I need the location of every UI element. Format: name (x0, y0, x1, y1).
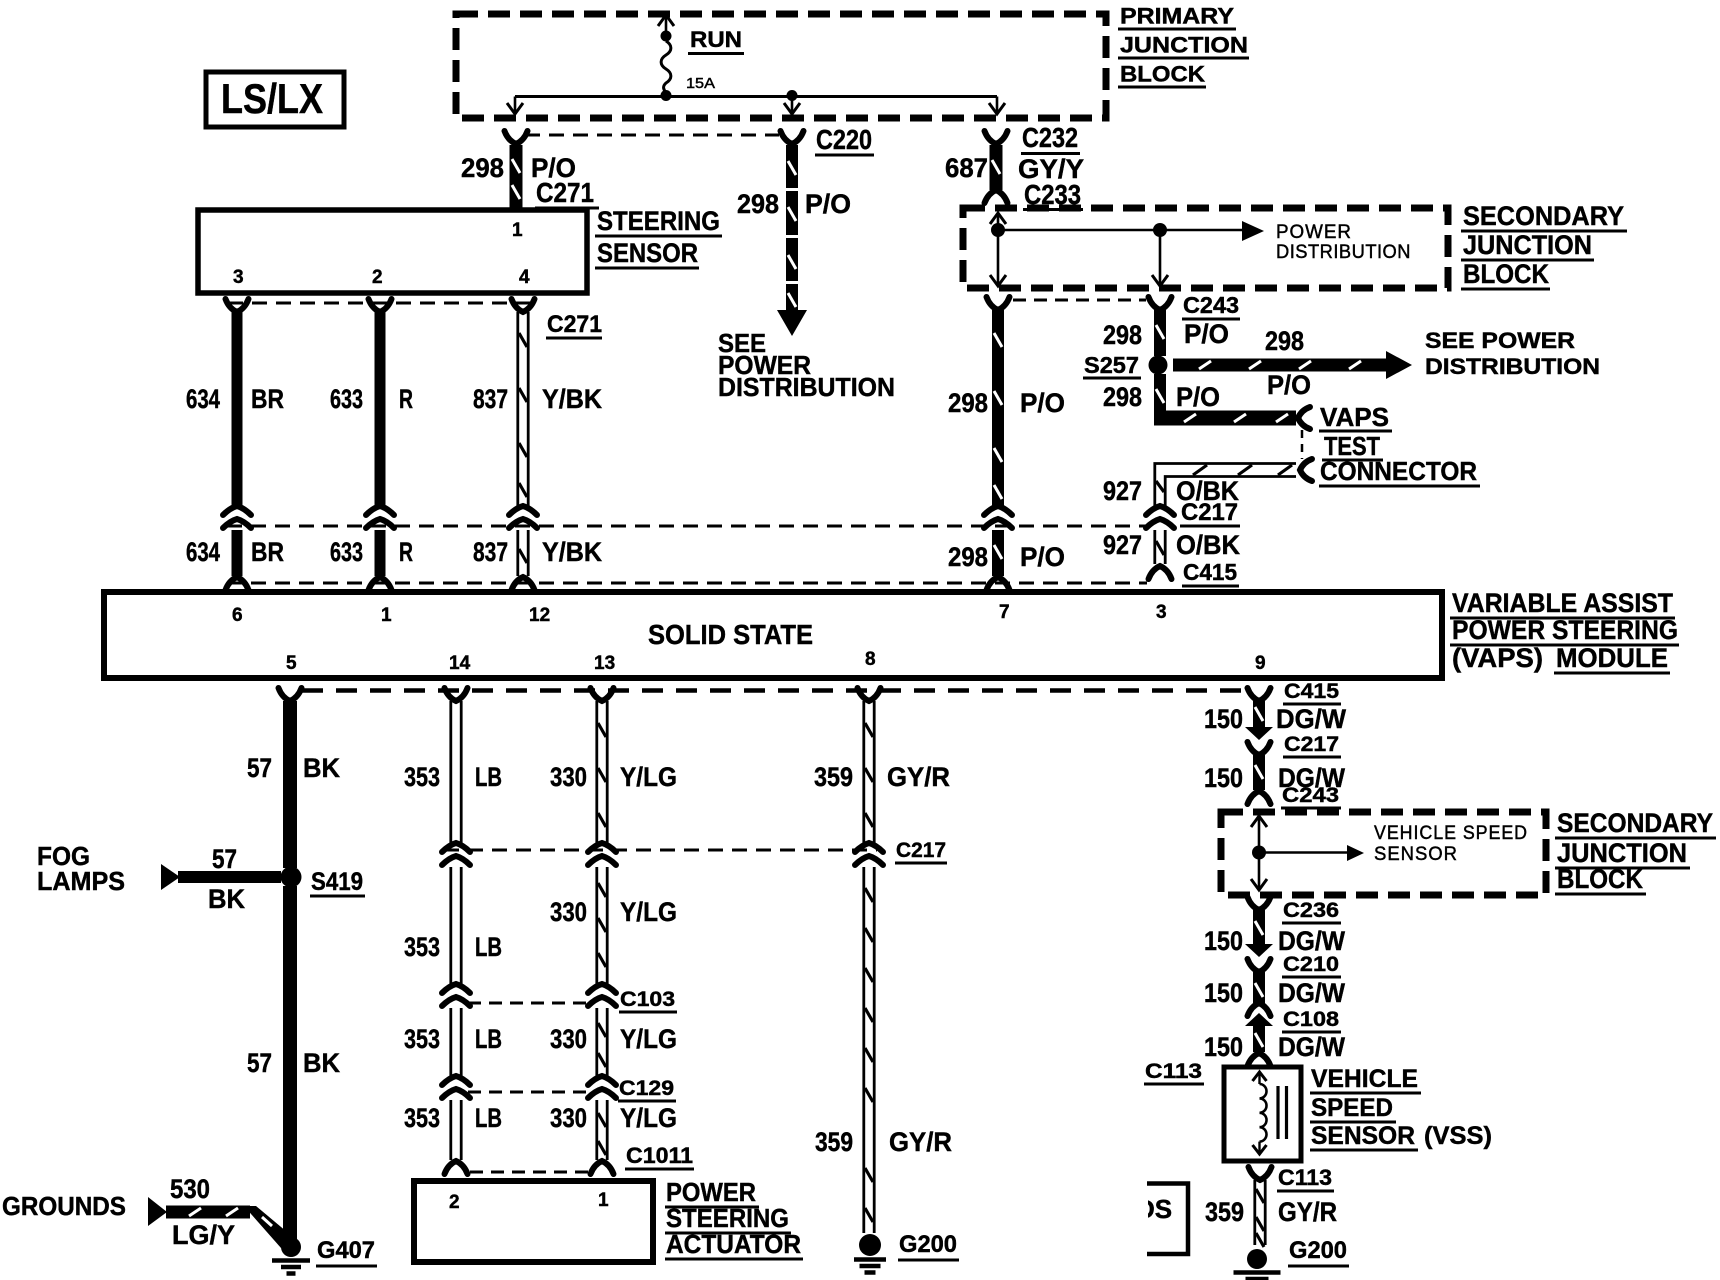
svg-text:Y/LG: Y/LG (620, 762, 677, 792)
svg-text:BLOCK: BLOCK (1120, 62, 1205, 87)
svg-text:633: 633 (330, 537, 363, 567)
svg-text:JUNCTION: JUNCTION (1463, 230, 1592, 260)
svg-text:Y/LG: Y/LG (620, 897, 677, 927)
svg-text:57: 57 (247, 753, 272, 783)
svg-text:P/O: P/O (805, 189, 851, 219)
wire 353 LB from pin 14 (445, 688, 468, 701)
svg-text:353: 353 (404, 932, 440, 962)
svg-text:SECONDARY: SECONDARY (1557, 808, 1713, 838)
svg-text:DG/W: DG/W (1278, 926, 1345, 956)
svg-text:837: 837 (473, 384, 508, 414)
svg-text:O/BK: O/BK (1176, 530, 1240, 560)
svg-text:330: 330 (550, 762, 587, 792)
svg-text:G200: G200 (899, 1231, 957, 1258)
module bottom connector mate line (302, 688, 1247, 693)
svg-text:5: 5 (286, 653, 297, 674)
node: RUN switch output (661, 31, 672, 42)
power steering actuator box (414, 1181, 653, 1262)
svg-text:POWER STEERING: POWER STEERING (1452, 615, 1678, 645)
svg-text:C271: C271 (536, 177, 594, 208)
svg-text:GY/R: GY/R (889, 1127, 952, 1157)
arrow to power distribution (777, 310, 807, 336)
svg-text:13: 13 (594, 653, 615, 674)
svg-text:4: 4 (519, 267, 530, 288)
inline connector at C217 (927 wire) (1146, 506, 1174, 515)
svg-text:SEE POWER: SEE POWER (1425, 328, 1575, 353)
secondary junction block (lower, dashed box) (1221, 812, 1546, 895)
arrow VEHICLE SPEED SENSOR (1347, 845, 1364, 861)
svg-text:C113: C113 (1278, 1165, 1332, 1190)
wire 298 P/O elbow to VAPS test connector (1154, 374, 1166, 418)
wire 687 GY/Y (990, 145, 1003, 190)
inline connector C108 (1248, 1003, 1271, 1016)
svg-text:BLOCK: BLOCK (1557, 864, 1643, 894)
svg-text:P/O: P/O (1184, 319, 1229, 349)
svg-text:C236: C236 (1283, 899, 1339, 922)
svg-text:JUNCTION: JUNCTION (1120, 33, 1248, 58)
svg-text:57: 57 (212, 844, 237, 874)
connector C1011 mate line (470, 1171, 594, 1174)
svg-text:57: 57 (247, 1048, 272, 1078)
svg-text:(VAPS): (VAPS) (1452, 643, 1543, 673)
svg-text:12: 12 (529, 605, 550, 626)
connector C103 mate line (468, 1002, 592, 1005)
junction block internal bus (990, 213, 1006, 224)
fuse 15A (wavy symbol) (661, 41, 671, 92)
svg-text:C103: C103 (620, 988, 675, 1011)
svg-text:353: 353 (404, 1024, 440, 1054)
svg-text:927: 927 (1103, 476, 1142, 506)
svg-text:1: 1 (598, 1190, 609, 1211)
svg-text:RUN: RUN (690, 27, 742, 52)
svg-text:LAMPS: LAMPS (37, 866, 125, 896)
svg-text:359: 359 (814, 762, 853, 792)
module pin flares (226, 577, 249, 590)
svg-text:353: 353 (404, 1103, 440, 1133)
svg-text:359: 359 (1205, 1197, 1244, 1227)
inline connector C210 (1245, 944, 1273, 957)
svg-text:634: 634 (186, 384, 220, 414)
VAPS module box (104, 592, 1442, 678)
svg-text:BK: BK (303, 753, 340, 783)
svg-text:SENSOR: SENSOR (597, 238, 698, 268)
svg-text:VAPS: VAPS (1320, 402, 1389, 432)
svg-text:P/O: P/O (1020, 542, 1065, 572)
svg-text:Y/LG: Y/LG (620, 1103, 677, 1133)
wire 837 Y/BK from pin 4 (512, 299, 535, 312)
svg-text:CONNECTOR: CONNECTOR (1320, 456, 1477, 486)
wire 298 to splice S257 (1154, 310, 1166, 356)
svg-text:6: 6 (232, 605, 243, 626)
svg-text:DG/W: DG/W (1278, 1032, 1345, 1062)
wire drop to C232 feed (996, 97, 999, 114)
wire 298 P/O to steering sensor (510, 145, 523, 212)
inline connector at C103 (353 wire) (442, 984, 470, 993)
svg-text:VEHICLE SPEED: VEHICLE SPEED (1374, 823, 1528, 844)
inline connector C217 (150 wire) (1245, 727, 1273, 740)
svg-text:359: 359 (815, 1127, 853, 1157)
svg-text:C232: C232 (1022, 122, 1078, 153)
svg-text:2: 2 (449, 1192, 460, 1213)
wire 298 P/O to module pin 7 (992, 310, 1004, 506)
svg-text:GY/R: GY/R (887, 762, 950, 792)
svg-text:C217: C217 (1284, 733, 1339, 756)
svg-text:DISTRIBUTION: DISTRIBUTION (718, 372, 895, 402)
svg-text:298: 298 (461, 153, 504, 183)
inline connector at C103 (330 wire) (588, 984, 616, 993)
svg-text:C220: C220 (816, 124, 872, 155)
svg-text:MODULE: MODULE (1556, 643, 1668, 673)
svg-text:353: 353 (404, 762, 440, 792)
ground G200 (left) (859, 1234, 881, 1256)
svg-text:DISTRIBUTION: DISTRIBUTION (1276, 242, 1411, 263)
svg-text:14: 14 (449, 653, 471, 674)
secondary junction block (upper, dashed box) (963, 208, 1448, 288)
wire 634 BR lower segment (232, 530, 243, 576)
wire 633 R from pin 2 (369, 299, 392, 312)
svg-text:634: 634 (186, 537, 220, 567)
svg-text:LB: LB (475, 1103, 502, 1133)
inline connector halves at C217: 634 wire (223, 506, 251, 515)
inline connector at C129 (330 wire) (588, 1076, 616, 1085)
wire 150 DG/W below junction block (1248, 897, 1271, 910)
svg-text:R: R (399, 384, 413, 414)
svg-text:298: 298 (1265, 326, 1304, 356)
connector C415 mate line (module connector) (227, 582, 1147, 585)
wire 57 BK to ground (283, 886, 297, 1240)
wire 330 Y/LG from pin 13 (591, 688, 614, 701)
VSS internal: sensor coil (1253, 1072, 1267, 1081)
connector C233 half (985, 190, 1008, 203)
svg-text:DG/W: DG/W (1276, 704, 1346, 734)
wire 633 R lower segment (375, 530, 386, 576)
svg-text:Y/BK: Y/BK (542, 537, 602, 567)
steering sensor box (198, 210, 587, 293)
svg-text:SENSOR: SENSOR (1374, 844, 1458, 865)
ground G407 (281, 1237, 301, 1257)
svg-text:3: 3 (1156, 602, 1167, 623)
adjacent circuit box fragment (DS) (1147, 1184, 1188, 1255)
svg-text:150: 150 (1204, 704, 1243, 734)
connector C217 mate line (center) (444, 849, 877, 852)
wire 837 Y/BK lower segment (516, 530, 519, 576)
connector C232 half (985, 131, 1008, 144)
svg-text:C1011: C1011 (626, 1143, 693, 1168)
node on bus (991, 223, 1005, 237)
svg-text:C271: C271 (547, 311, 602, 338)
svg-text:1: 1 (381, 605, 392, 626)
svg-text:SECONDARY: SECONDARY (1463, 201, 1624, 231)
svg-text:VARIABLE ASSIST: VARIABLE ASSIST (1452, 588, 1673, 618)
inline connector at C217 (359 wire) (855, 843, 883, 852)
node junction at C220 feed (787, 90, 798, 101)
svg-text:PRIMARY: PRIMARY (1120, 4, 1234, 29)
svg-text:C217: C217 (1181, 499, 1238, 526)
node: fuse output junction (661, 90, 672, 101)
connector C243 half (right) (1149, 297, 1172, 310)
LS/LX model label box (206, 72, 344, 127)
svg-text:G200: G200 (1289, 1237, 1347, 1264)
svg-text:15A: 15A (686, 75, 715, 92)
svg-text:150: 150 (1204, 926, 1243, 956)
svg-text:GY/R: GY/R (1278, 1197, 1337, 1227)
junction block internal bus (lower) (1251, 816, 1267, 827)
connector C129 mate line (468, 1091, 592, 1094)
arrow POWER DISTRIBUTION (1242, 221, 1264, 241)
svg-text:837: 837 (473, 537, 508, 567)
svg-text:150: 150 (1204, 978, 1243, 1008)
ground G200 (right) (1247, 1249, 1267, 1269)
svg-text:633: 633 (330, 384, 363, 414)
svg-text:BK: BK (303, 1048, 340, 1078)
inline connector at C217 (330 wire) (588, 843, 616, 852)
dashed link between test connector pins (1301, 430, 1304, 459)
svg-text:150: 150 (1204, 1032, 1243, 1062)
wire 359 GY/R from pin 8 (858, 688, 881, 701)
svg-text:530: 530 (170, 1174, 210, 1204)
svg-text:C113: C113 (1145, 1060, 1202, 1083)
wire 634 BR from pin 3 (226, 299, 249, 312)
wire 927 O/BK return from VAPS test connector (1300, 459, 1312, 481)
svg-text:330: 330 (550, 897, 587, 927)
wire drop to C271 feed (514, 97, 517, 114)
svg-text:SOLID STATE: SOLID STATE (648, 619, 813, 650)
svg-text:2: 2 (372, 267, 383, 288)
wire 150 DG/W chain from pin 9 (1248, 688, 1271, 701)
svg-text:C415: C415 (1183, 559, 1237, 585)
connector C243 half (left) (987, 297, 1010, 310)
svg-text:P/O: P/O (1020, 388, 1065, 418)
svg-text:SPEED: SPEED (1311, 1094, 1393, 1122)
svg-text:298: 298 (737, 189, 779, 219)
svg-text:BK: BK (208, 884, 245, 914)
svg-text:S257: S257 (1084, 352, 1139, 378)
svg-text:298: 298 (948, 542, 988, 572)
svg-text:LG/Y: LG/Y (172, 1220, 235, 1250)
svg-text:VEHICLE: VEHICLE (1311, 1065, 1418, 1093)
svg-text:P/O: P/O (1176, 382, 1220, 412)
inline connector at C129 (353 wire) (442, 1076, 470, 1085)
svg-text:C210: C210 (1283, 953, 1339, 976)
svg-text:9: 9 (1255, 653, 1266, 674)
svg-text:DISTRIBUTION: DISTRIBUTION (1425, 354, 1600, 379)
svg-text:LS/LX: LS/LX (221, 75, 323, 122)
connector C220 dashed mate line (525, 134, 779, 137)
svg-text:330: 330 (550, 1103, 587, 1133)
svg-text:LB: LB (475, 932, 502, 962)
wire drop to C220 feed (791, 97, 794, 114)
svg-text:C108: C108 (1283, 1008, 1339, 1031)
svg-text:298: 298 (1103, 320, 1142, 350)
svg-text:1: 1 (512, 220, 523, 241)
svg-text:150: 150 (1204, 763, 1243, 793)
svg-text:ACTUATOR: ACTUATOR (666, 1229, 801, 1259)
connector C243 mate line (1013, 299, 1146, 302)
inline connector halves at C217: 837 wire (509, 506, 537, 515)
svg-text:POWER: POWER (1276, 222, 1352, 243)
svg-text:C129: C129 (619, 1077, 674, 1100)
splice S419 (281, 867, 302, 888)
svg-text:927: 927 (1103, 530, 1142, 560)
svg-text:687: 687 (945, 153, 988, 183)
svg-text:7: 7 (999, 602, 1010, 623)
svg-text:LB: LB (475, 1024, 502, 1054)
svg-text:SENSOR: SENSOR (1311, 1122, 1415, 1150)
svg-text:G407: G407 (317, 1237, 375, 1264)
wire 359 GY/R to ground (1253, 1180, 1256, 1245)
ignition switch RUN feed arrow (658, 15, 674, 26)
svg-text:Y/BK: Y/BK (542, 384, 602, 414)
svg-text:C415: C415 (1284, 680, 1339, 703)
svg-text:C243: C243 (1183, 292, 1239, 318)
connector C271 top half (505, 131, 528, 144)
svg-text:BLOCK: BLOCK (1463, 259, 1549, 289)
wire 57 BK from pin 5 (279, 688, 302, 701)
svg-text:C243: C243 (1282, 784, 1339, 807)
node on bus (lower) (1252, 846, 1266, 860)
svg-text:LB: LB (475, 762, 502, 792)
svg-text:DG/W: DG/W (1278, 978, 1345, 1008)
vehicle speed sensor box (1224, 1067, 1301, 1161)
svg-text:BR: BR (251, 384, 284, 414)
connector C113 below VSS (1249, 1167, 1272, 1180)
primary junction block (dashed box) (456, 14, 1106, 118)
svg-text:R: R (399, 537, 413, 567)
connector C217 mate line (upper run) (227, 525, 1146, 528)
svg-text:GROUNDS: GROUNDS (2, 1191, 126, 1221)
svg-text:298: 298 (948, 388, 988, 418)
inline connector at C217 (298 wire) (984, 506, 1012, 515)
inline connector halves at C217: 633 wire (366, 506, 394, 515)
inline connector at C217 (353 wire) (442, 843, 470, 852)
node to C243 drop (1153, 223, 1167, 237)
svg-text:298: 298 (1103, 382, 1142, 412)
svg-text:C217: C217 (896, 839, 946, 862)
svg-text:P/O: P/O (1267, 370, 1311, 400)
wire: fuse bus inside primary junction block (515, 95, 997, 98)
svg-text:STEERING: STEERING (597, 206, 720, 236)
svg-text:S419: S419 (311, 868, 363, 896)
svg-text:BR: BR (251, 537, 284, 567)
wire 298 P/O to power distribution (786, 145, 798, 310)
svg-text:8: 8 (865, 649, 876, 670)
connector C271 lower mate line (228, 302, 536, 305)
svg-text:Y/LG: Y/LG (620, 1024, 677, 1054)
svg-text:3: 3 (233, 267, 244, 288)
wire 298 P/O heavy feed arrow to power distribution (1173, 359, 1390, 372)
VSS internal: pickup lines (1276, 1086, 1279, 1139)
svg-text:(VSS): (VSS) (1424, 1122, 1492, 1150)
connector C220 half (781, 131, 804, 144)
svg-text:330: 330 (550, 1024, 587, 1054)
